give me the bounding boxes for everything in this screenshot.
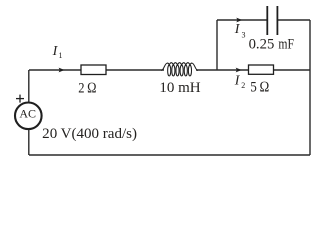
svg-text:0.25: 0.25	[249, 37, 275, 53]
svg-text:mF: mF	[278, 37, 294, 53]
svg-text:1: 1	[59, 51, 63, 60]
svg-text:5 Ω: 5 Ω	[250, 79, 269, 95]
svg-text:2: 2	[241, 81, 245, 90]
svg-text:20 V(400 rad/s): 20 V(400 rad/s)	[42, 126, 137, 142]
svg-text:3: 3	[242, 31, 246, 40]
svg-text:AC: AC	[19, 107, 36, 121]
svg-text:2 Ω: 2 Ω	[78, 81, 96, 97]
svg-text:10 mH: 10 mH	[159, 80, 200, 96]
